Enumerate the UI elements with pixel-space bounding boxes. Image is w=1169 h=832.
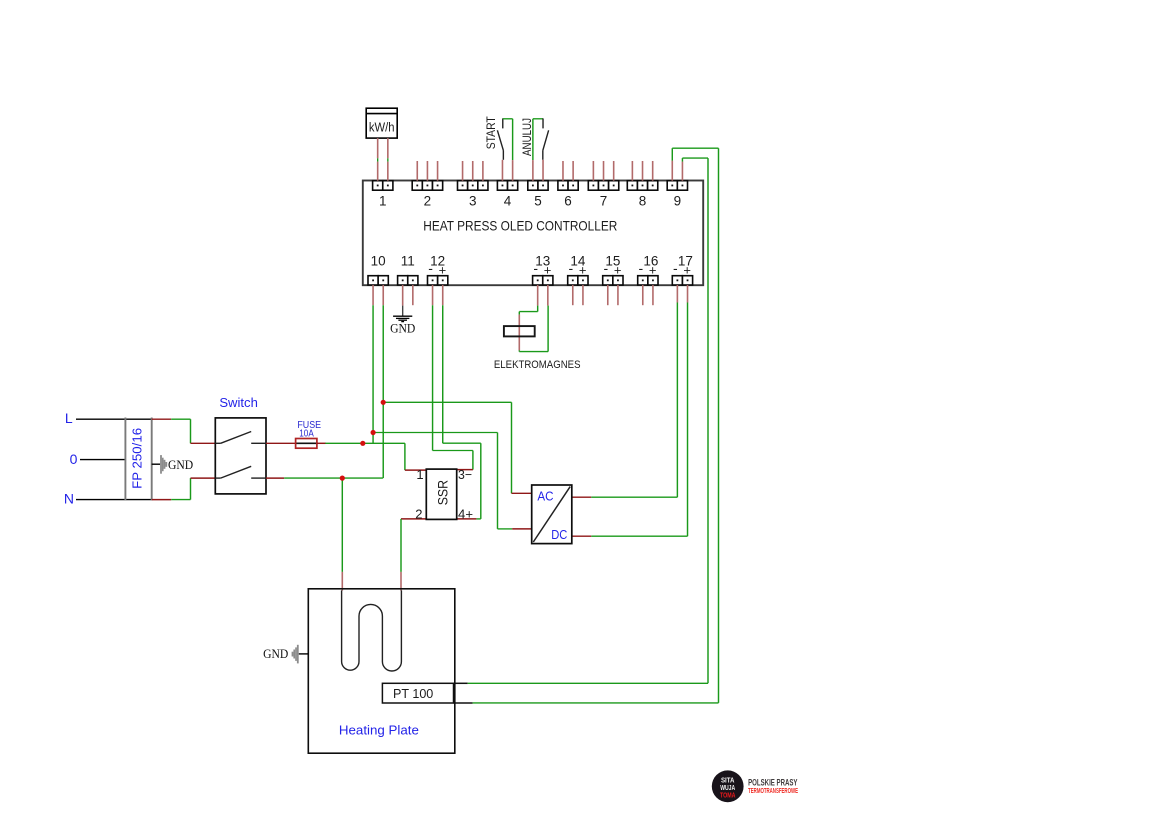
svg-text:6: 6 [564, 194, 572, 209]
svg-text:POLSKIE PRASY: POLSKIE PRASY [748, 777, 798, 788]
svg-text:3−: 3− [458, 467, 472, 482]
svg-text:+: + [614, 263, 622, 278]
svg-text:-: - [428, 260, 433, 276]
svg-text:11: 11 [401, 254, 415, 269]
svg-text:AC: AC [537, 489, 553, 504]
svg-text:Heating Plate: Heating Plate [339, 724, 419, 738]
svg-text:ELEKTROMAGNES: ELEKTROMAGNES [494, 359, 581, 371]
svg-text:8: 8 [639, 194, 647, 209]
svg-text:+: + [649, 263, 657, 278]
svg-text:L: L [65, 410, 73, 426]
svg-text:9: 9 [674, 194, 682, 209]
svg-text:10A: 10A [299, 428, 314, 439]
svg-text:START: START [486, 116, 498, 149]
svg-text:-: - [673, 260, 678, 276]
svg-text:1: 1 [379, 194, 387, 209]
svg-text:-: - [638, 260, 643, 276]
svg-text:SITA: SITA [721, 778, 735, 785]
svg-text:5: 5 [534, 194, 542, 209]
svg-text:2: 2 [424, 194, 432, 209]
svg-text:+: + [439, 263, 447, 278]
svg-text:+: + [544, 263, 552, 278]
svg-text:GND: GND [263, 646, 288, 661]
svg-text:+: + [683, 263, 691, 278]
svg-text:-: - [533, 260, 538, 276]
svg-text:10: 10 [371, 254, 386, 269]
svg-text:-: - [568, 260, 573, 276]
svg-text:N: N [64, 490, 74, 506]
svg-text:PT 100: PT 100 [393, 686, 433, 701]
svg-text:1: 1 [416, 467, 423, 482]
svg-text:GND: GND [168, 457, 193, 472]
svg-text:TERMOTRANSFEROWE: TERMOTRANSFEROWE [748, 788, 798, 795]
svg-text:7: 7 [600, 194, 608, 209]
svg-text:ANULUJ: ANULUJ [522, 118, 534, 156]
svg-text:kW/h: kW/h [369, 121, 395, 135]
svg-text:DC: DC [551, 527, 567, 542]
svg-text:3: 3 [469, 194, 477, 209]
svg-text:TOMA: TOMA [720, 791, 736, 800]
svg-text:HEAT PRESS OLED CONTROLLER: HEAT PRESS OLED CONTROLLER [423, 218, 617, 234]
svg-text:FP 250/16: FP 250/16 [131, 428, 145, 489]
svg-text:+: + [579, 263, 587, 278]
svg-text:0: 0 [70, 451, 78, 467]
svg-text:-: - [603, 260, 608, 276]
svg-text:2: 2 [415, 507, 422, 522]
svg-text:Switch: Switch [219, 395, 258, 410]
svg-text:4: 4 [504, 194, 512, 209]
svg-text:GND: GND [390, 320, 415, 335]
svg-text:SSR: SSR [435, 480, 450, 506]
svg-text:4+: 4+ [458, 507, 473, 522]
